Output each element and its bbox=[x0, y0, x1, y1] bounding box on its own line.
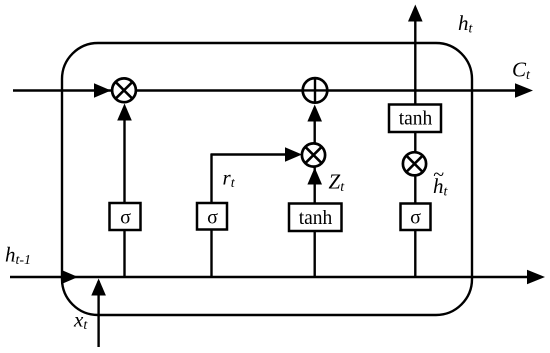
wire: sigma S2 column vertical bbox=[210, 154, 212, 277]
svg-text:σ: σ bbox=[410, 207, 421, 229]
svg-text:~: ~ bbox=[433, 164, 444, 186]
wire: x-t input vertical bbox=[97, 281, 99, 347]
arrowhead: into multiply node M1 from below bbox=[117, 104, 132, 121]
svg-text:tanh: tanh bbox=[399, 109, 433, 130]
wire: h-(t-1) horizontal line bbox=[10, 276, 529, 278]
svg-text:xt: xt bbox=[73, 307, 88, 333]
arrowhead: r-t into multiply node M2 bbox=[285, 147, 302, 162]
svg-text:ht: ht bbox=[458, 11, 474, 37]
svg-text:Ct: Ct bbox=[512, 58, 531, 84]
svg-text:rt: rt bbox=[223, 165, 236, 191]
wire: sigma S1 column vertical bbox=[123, 118, 125, 277]
wire: h-t output vertical column bbox=[414, 20, 416, 277]
svg-text:Zt: Zt bbox=[329, 169, 346, 195]
arrowhead: x-t into h line bbox=[91, 279, 106, 296]
arrowhead: into multiply node M2 from below bbox=[307, 168, 322, 185]
arrowhead: into add node A1 from below bbox=[307, 105, 322, 122]
arrowhead: h-(t-1) output right bbox=[527, 270, 545, 285]
tanh box T1 bbox=[289, 204, 342, 232]
sigma box S1 bbox=[110, 203, 141, 230]
cell body rounded rectangle bbox=[62, 43, 472, 315]
svg-text:σ: σ bbox=[207, 207, 218, 229]
svg-text:tanh: tanh bbox=[299, 208, 333, 229]
wire: tanh T1 column vertical bbox=[314, 118, 316, 277]
arrowhead: h-t output top bbox=[408, 5, 423, 22]
sigma box S3 (on h-t column) bbox=[401, 204, 431, 231]
arrowhead: into multiply node M1 bbox=[94, 83, 111, 98]
multiply node M3 (h-tilde) bbox=[403, 152, 426, 175]
tanh box T2 (on h-t column) bbox=[389, 105, 441, 133]
wire: C-t horizontal line bbox=[13, 89, 517, 91]
svg-text:σ: σ bbox=[120, 207, 131, 229]
sigma box S2 bbox=[197, 203, 227, 230]
wire: r-t horizontal to multiply node M2 bbox=[211, 153, 288, 155]
arrowhead: C-t output right bbox=[515, 83, 533, 98]
add node A1 on C line bbox=[303, 78, 328, 103]
multiply node M2 (r gate) bbox=[302, 143, 325, 166]
svg-text:ht-1: ht-1 bbox=[5, 243, 31, 269]
arrowhead: h-(t-1) entering cell bbox=[61, 270, 78, 285]
multiply node M1 on C line bbox=[112, 78, 136, 102]
